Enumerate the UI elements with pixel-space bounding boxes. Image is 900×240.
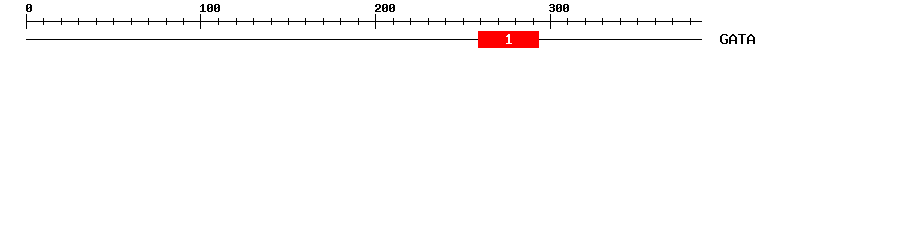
- track label GATA: [720, 34, 755, 44]
- ruler label 100: [200, 4, 220, 12]
- ruler label 200: [375, 4, 395, 12]
- feature map baseline: [26, 39, 702, 40]
- ruler label 300: [549, 4, 569, 12]
- feature box label 1 (white): [506, 34, 512, 44]
- ruler minor ticks every 10 units: [43, 18, 691, 25]
- feature box 1 (red): [478, 31, 539, 48]
- background: [0, 0, 900, 58]
- ruler scale line: [26, 21, 702, 22]
- ruler major ticks at 0,100,200,300: [26, 14, 551, 29]
- ruler label 0: [26, 4, 32, 12]
